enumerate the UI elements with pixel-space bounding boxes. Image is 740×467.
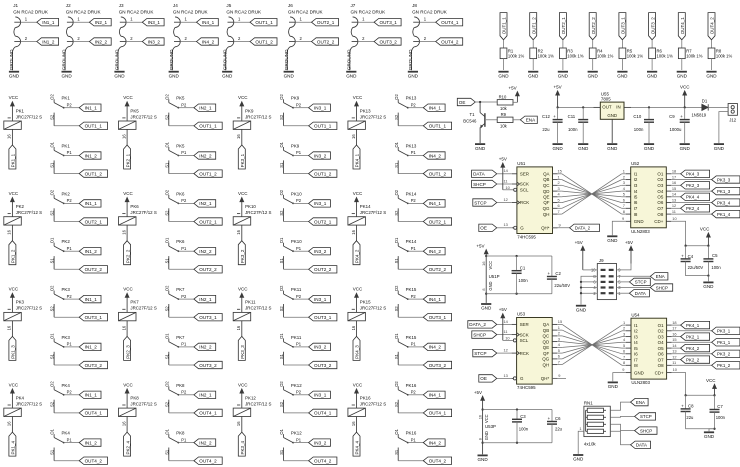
- svg-text:OUT4_1: OUT4_1: [429, 411, 447, 416]
- svg-text:22u: 22u: [686, 415, 694, 420]
- svg-text:SHCP: SHCP: [656, 285, 668, 290]
- svg-text:100n: 100n: [634, 127, 644, 132]
- svg-text:GN RCA2 DRUK: GN RCA2 DRUK: [66, 9, 102, 14]
- svg-text:U53P: U53P: [485, 424, 496, 429]
- svg-text:15: 15: [672, 186, 676, 191]
- svg-text:OUT1_1: OUT1_1: [314, 124, 332, 129]
- svg-text:100n: 100n: [518, 278, 528, 283]
- svg-text:16: 16: [672, 180, 676, 185]
- svg-text:OUT2_1: OUT2_1: [429, 219, 447, 224]
- svg-text:RN1: RN1: [584, 401, 593, 406]
- svg-text:PK14: PK14: [406, 239, 417, 244]
- svg-text:O8: O8: [658, 363, 664, 368]
- svg-text:IN1_2: IN1_2: [42, 39, 55, 44]
- svg-text:OUT1_1: OUT1_1: [502, 17, 507, 35]
- svg-text:C5: C5: [712, 253, 718, 258]
- svg-text:SER: SER: [520, 172, 529, 177]
- svg-text:O1: O1: [50, 141, 55, 147]
- svg-text:P2: P2: [67, 294, 73, 299]
- svg-text:O1: O1: [50, 428, 55, 434]
- svg-text:GND: GND: [644, 146, 655, 151]
- svg-text:O2: O2: [50, 189, 55, 195]
- svg-text:9: 9: [622, 216, 624, 221]
- svg-text:IN3_2: IN3_2: [148, 39, 161, 44]
- svg-text:VCC: VCC: [484, 414, 489, 423]
- svg-text:IN1_2: IN1_2: [85, 249, 98, 254]
- svg-text:GND: GND: [714, 146, 725, 151]
- svg-text:+5V: +5V: [476, 243, 484, 248]
- svg-text:O2: O2: [394, 285, 399, 291]
- svg-text:O2: O2: [657, 177, 663, 182]
- svg-text:I5: I5: [634, 195, 638, 200]
- svg-text:5: 5: [623, 343, 625, 348]
- svg-text:16: 16: [7, 134, 12, 139]
- svg-text:PK1_3: PK1_3: [717, 189, 731, 194]
- svg-text:PK6: PK6: [176, 191, 185, 196]
- svg-text:VCC: VCC: [353, 287, 363, 292]
- svg-text:GND: GND: [647, 73, 658, 78]
- svg-text:PK1_3: PK1_3: [11, 345, 16, 359]
- svg-text:JRC27F/12 S: JRC27F/12 S: [245, 210, 271, 215]
- svg-text:QC: QC: [543, 183, 550, 188]
- svg-text:I3: I3: [634, 334, 638, 339]
- svg-text:8: 8: [478, 438, 483, 440]
- svg-text:VCC: VCC: [706, 378, 716, 383]
- svg-text:+5V: +5V: [474, 390, 482, 395]
- svg-text:J8: J8: [412, 3, 417, 8]
- svg-text:100k 1%: 100k 1%: [508, 54, 525, 59]
- svg-text:PK15: PK15: [406, 287, 417, 292]
- svg-text:100k 1%: 100k 1%: [716, 54, 733, 59]
- svg-text:IN4_1: IN4_1: [429, 297, 442, 302]
- svg-text:16: 16: [478, 415, 483, 419]
- svg-text:U51P: U51P: [489, 274, 500, 279]
- svg-text:O1: O1: [164, 333, 169, 339]
- svg-text:C12: C12: [542, 114, 550, 119]
- svg-text:P1: P1: [181, 437, 187, 442]
- svg-text:7805: 7805: [601, 96, 611, 101]
- svg-text:QB: QB: [543, 328, 549, 333]
- svg-text:IN2_2: IN2_2: [95, 39, 108, 44]
- svg-text:J7: J7: [351, 3, 356, 8]
- svg-text:PK4_2: PK4_2: [686, 346, 700, 351]
- svg-text:R10: R10: [499, 95, 507, 100]
- svg-text:16: 16: [121, 325, 126, 330]
- svg-text:PK4_1: PK4_1: [355, 153, 360, 167]
- svg-text:7: 7: [558, 209, 560, 214]
- svg-text:IN3_1: IN3_1: [314, 201, 327, 206]
- svg-text:OUT1_1: OUT1_1: [255, 20, 273, 25]
- svg-text:PK3_3: PK3_3: [717, 177, 731, 182]
- svg-text:PK13: PK13: [406, 96, 417, 101]
- svg-text:PK2_1: PK2_1: [125, 153, 130, 167]
- svg-text:J5: J5: [226, 3, 231, 8]
- svg-text:P1: P1: [181, 246, 187, 251]
- svg-text:IN4_2: IN4_2: [429, 249, 442, 254]
- svg-text:2: 2: [623, 174, 625, 179]
- svg-text:OUT1_2: OUT1_2: [429, 171, 447, 176]
- svg-text:P1: P1: [411, 246, 417, 251]
- svg-text:1: 1: [623, 320, 625, 325]
- svg-text:GND: GND: [607, 146, 618, 151]
- svg-text:OUT1_2: OUT1_2: [531, 17, 536, 35]
- svg-text:OUT1_1: OUT1_1: [85, 124, 103, 129]
- svg-text:SHCP: SHCP: [473, 182, 486, 187]
- svg-text:JRC27F/12 S: JRC27F/12 S: [130, 306, 156, 311]
- svg-text:I8: I8: [634, 363, 638, 368]
- svg-text:O5: O5: [658, 346, 664, 351]
- svg-text:VCC: VCC: [9, 382, 19, 387]
- svg-text:GND: GND: [222, 73, 233, 78]
- svg-text:DATA: DATA: [636, 443, 647, 448]
- svg-text:J9: J9: [599, 258, 604, 263]
- svg-text:VCC: VCC: [353, 191, 363, 196]
- svg-text:PK2: PK2: [16, 204, 25, 209]
- svg-text:O2: O2: [279, 285, 284, 291]
- svg-text:PK12: PK12: [245, 395, 256, 400]
- svg-text:OUT3_1: OUT3_1: [380, 20, 398, 25]
- svg-text:P1: P1: [296, 150, 302, 155]
- svg-text:J3: J3: [119, 3, 124, 8]
- svg-text:100k 1%: 100k 1%: [686, 54, 703, 59]
- svg-text:JRC27F/12 S: JRC27F/12 S: [16, 210, 42, 215]
- svg-text:IN4_2: IN4_2: [429, 345, 442, 350]
- svg-text:100k 1%: 100k 1%: [567, 54, 584, 59]
- svg-text:GND: GND: [477, 457, 488, 462]
- svg-text:VCC: VCC: [9, 287, 19, 292]
- svg-text:VCC: VCC: [238, 382, 248, 387]
- svg-text:3: 3: [623, 331, 625, 336]
- svg-text:22u/50V: 22u/50V: [688, 265, 704, 270]
- svg-text:OUT1_1: OUT1_1: [199, 124, 217, 129]
- svg-text:OUT2_2: OUT2_2: [85, 267, 103, 272]
- svg-text:ULN2803: ULN2803: [631, 229, 650, 234]
- svg-text:QD: QD: [543, 189, 550, 194]
- svg-text:OUT4_2: OUT4_2: [85, 459, 103, 464]
- svg-text:16: 16: [236, 229, 241, 234]
- svg-text:PK14: PK14: [360, 204, 371, 209]
- svg-text:GND: GND: [677, 73, 688, 78]
- svg-text:GND: GND: [475, 146, 486, 151]
- svg-text:JRC27F/12 S: JRC27F/12 S: [360, 306, 386, 311]
- svg-text:JRC27F/12 S: JRC27F/12 S: [360, 210, 386, 215]
- svg-text:GROUND: GROUND: [115, 49, 120, 70]
- svg-text:PK4_2: PK4_2: [355, 249, 360, 263]
- svg-text:I6: I6: [634, 200, 638, 205]
- svg-text:PK3: PK3: [62, 287, 71, 292]
- svg-text:P2: P2: [411, 294, 417, 299]
- svg-text:13: 13: [672, 349, 676, 354]
- svg-text:STCP: STCP: [474, 200, 486, 205]
- svg-text:O1: O1: [279, 428, 284, 434]
- svg-text:VCC: VCC: [9, 95, 19, 100]
- svg-text:GROUND: GROUND: [62, 49, 67, 70]
- svg-text:STCP: STCP: [474, 351, 486, 356]
- svg-text:QB: QB: [543, 177, 549, 182]
- svg-text:100k 1%: 100k 1%: [538, 54, 555, 59]
- svg-text:PK9: PK9: [291, 96, 300, 101]
- svg-text:PK10: PK10: [291, 239, 302, 244]
- svg-text:G: G: [520, 226, 524, 231]
- svg-text:U52: U52: [631, 161, 640, 166]
- svg-text:GND: GND: [578, 146, 589, 151]
- svg-text:16: 16: [121, 421, 126, 426]
- svg-text:C7: C7: [717, 404, 723, 409]
- svg-text:16: 16: [7, 325, 12, 330]
- svg-text:O5: O5: [657, 195, 663, 200]
- svg-text:OE: OE: [459, 100, 466, 105]
- svg-text:DATA: DATA: [635, 291, 646, 296]
- svg-text:JRC27F/12 S: JRC27F/12 S: [245, 306, 271, 311]
- svg-text:PK2: PK2: [62, 191, 71, 196]
- svg-text:74HC595: 74HC595: [517, 385, 536, 390]
- svg-text:12: 12: [672, 354, 676, 359]
- svg-text:GN RCA2 DRUK: GN RCA2 DRUK: [226, 9, 262, 14]
- svg-text:IN4_1: IN4_1: [429, 106, 442, 111]
- svg-text:O1: O1: [279, 237, 284, 243]
- svg-text:I2: I2: [634, 177, 638, 182]
- svg-text:VCC: VCC: [353, 95, 363, 100]
- svg-text:OUT2_2: OUT2_2: [314, 267, 332, 272]
- svg-text:P2: P2: [296, 102, 302, 107]
- svg-text:C9: C9: [669, 114, 675, 119]
- svg-text:PK4_3: PK4_3: [686, 172, 700, 177]
- svg-text:1: 1: [558, 325, 560, 330]
- svg-text:QF: QF: [543, 200, 549, 205]
- svg-text:GROUND: GROUND: [346, 49, 351, 70]
- svg-text:IN3_1: IN3_1: [314, 106, 327, 111]
- svg-text:U51: U51: [517, 161, 526, 166]
- svg-text:IN2_1: IN2_1: [199, 297, 212, 302]
- svg-text:VCC: VCC: [123, 95, 133, 100]
- svg-text:OUT2_1: OUT2_1: [317, 20, 335, 25]
- svg-text:PK16: PK16: [360, 395, 371, 400]
- svg-text:2: 2: [558, 180, 560, 185]
- svg-text:PK7: PK7: [176, 287, 185, 292]
- svg-text:OUT2_2: OUT2_2: [317, 39, 335, 44]
- svg-text:VCC: VCC: [123, 191, 133, 196]
- svg-text:GND: GND: [488, 281, 493, 290]
- svg-text:16: 16: [351, 421, 356, 426]
- svg-text:PK3_1: PK3_1: [240, 153, 245, 167]
- svg-text:I3: I3: [634, 183, 638, 188]
- svg-text:O4: O4: [657, 189, 663, 194]
- svg-text:PK3_2: PK3_2: [240, 249, 245, 263]
- svg-text:9: 9: [559, 222, 561, 227]
- svg-text:J4: J4: [173, 3, 178, 8]
- svg-text:GND: GND: [607, 238, 618, 243]
- svg-text:O1: O1: [394, 333, 399, 339]
- svg-text:D1: D1: [702, 98, 708, 103]
- svg-text:100k 1%: 100k 1%: [627, 54, 644, 59]
- svg-text:P2: P2: [411, 390, 417, 395]
- svg-text:P2: P2: [411, 102, 417, 107]
- svg-text:IN1_1: IN1_1: [85, 393, 98, 398]
- svg-text:GND: GND: [61, 73, 72, 78]
- svg-text:22u: 22u: [542, 127, 550, 132]
- svg-text:PK14: PK14: [406, 191, 417, 196]
- svg-text:QE: QE: [543, 345, 549, 350]
- svg-text:JRC27F/12 S: JRC27F/12 S: [245, 401, 271, 406]
- svg-text:SHCP: SHCP: [640, 428, 652, 433]
- svg-text:OUT3_1: OUT3_1: [85, 315, 103, 320]
- svg-text:ENA: ENA: [656, 274, 665, 279]
- svg-text:O7: O7: [658, 357, 664, 362]
- svg-text:P1: P1: [411, 437, 417, 442]
- svg-text:+5V: +5V: [625, 240, 633, 245]
- svg-text:2: 2: [623, 326, 625, 331]
- svg-text:VCC: VCC: [700, 227, 710, 232]
- svg-text:OE: OE: [480, 226, 487, 231]
- svg-text:PK8: PK8: [176, 383, 185, 388]
- svg-text:J12: J12: [729, 118, 737, 123]
- svg-text:GND: GND: [169, 73, 180, 78]
- svg-text:12: 12: [672, 203, 676, 208]
- svg-text:PK8: PK8: [130, 395, 139, 400]
- svg-text:PK3_4: PK3_4: [240, 440, 245, 454]
- svg-text:VCC: VCC: [488, 261, 493, 270]
- svg-text:P1: P1: [67, 437, 73, 442]
- svg-text:O3: O3: [658, 334, 664, 339]
- svg-text:7: 7: [623, 203, 625, 208]
- svg-text:12: 12: [504, 197, 508, 202]
- svg-text:I1: I1: [634, 172, 638, 177]
- svg-text:6: 6: [623, 197, 625, 202]
- svg-text:IN1_1: IN1_1: [85, 201, 98, 206]
- svg-text:18: 18: [672, 169, 676, 174]
- svg-text:3: 3: [558, 336, 560, 341]
- svg-text:100n: 100n: [711, 265, 721, 270]
- svg-text:16: 16: [7, 229, 12, 234]
- svg-text:IN: IN: [616, 105, 620, 110]
- svg-text:OUT1_2: OUT1_2: [85, 171, 103, 176]
- svg-text:GND: GND: [284, 73, 295, 78]
- svg-text:+5V: +5V: [554, 85, 562, 90]
- svg-text:P2: P2: [181, 390, 187, 395]
- svg-text:OUT3_2: OUT3_2: [429, 363, 447, 368]
- svg-text:O2: O2: [658, 329, 664, 334]
- svg-text:QH*: QH*: [541, 226, 550, 231]
- svg-text:O2: O2: [50, 381, 55, 387]
- svg-text:I4: I4: [634, 340, 638, 345]
- svg-text:SCK: SCK: [520, 182, 529, 187]
- svg-text:IN4_1: IN4_1: [202, 20, 215, 25]
- svg-text:O3: O3: [657, 183, 663, 188]
- svg-text:C11: C11: [568, 114, 576, 119]
- svg-text:U54: U54: [631, 312, 640, 317]
- svg-text:GROUND: GROUND: [284, 49, 289, 70]
- svg-text:OUT4_2: OUT4_2: [199, 459, 217, 464]
- svg-text:P1: P1: [296, 342, 302, 347]
- svg-text:IN3_1: IN3_1: [314, 297, 327, 302]
- svg-text:15: 15: [558, 319, 562, 324]
- svg-text:GND: GND: [408, 73, 419, 78]
- svg-text:C2: C2: [555, 271, 561, 276]
- svg-text:O1: O1: [658, 323, 664, 328]
- svg-text:P2: P2: [181, 102, 187, 107]
- svg-text:O2: O2: [394, 189, 399, 195]
- svg-text:PK7: PK7: [176, 335, 185, 340]
- svg-text:O2: O2: [394, 381, 399, 387]
- svg-text:O1: O1: [394, 428, 399, 434]
- svg-text:O1: O1: [657, 172, 663, 177]
- svg-text:+5V: +5V: [575, 240, 583, 245]
- svg-text:7: 7: [623, 354, 625, 359]
- svg-text:J1: J1: [13, 3, 18, 8]
- svg-text:O2: O2: [279, 94, 284, 100]
- svg-text:11: 11: [672, 209, 676, 214]
- svg-text:JRC27F/12 S: JRC27F/12 S: [360, 401, 386, 406]
- svg-text:GND: GND: [114, 73, 125, 78]
- svg-text:PK1: PK1: [16, 108, 25, 113]
- svg-text:T1: T1: [469, 112, 475, 117]
- svg-text:PK4: PK4: [62, 431, 71, 436]
- svg-text:O2: O2: [50, 285, 55, 291]
- svg-text:C6: C6: [555, 416, 561, 421]
- svg-text:100k 1%: 100k 1%: [657, 54, 674, 59]
- svg-text:4x10k: 4x10k: [584, 441, 597, 446]
- svg-text:PK2: PK2: [62, 239, 71, 244]
- svg-text:I5: I5: [634, 346, 638, 351]
- svg-text:JRC27F/12 S: JRC27F/12 S: [245, 114, 271, 119]
- svg-text:GROUND: GROUND: [222, 49, 227, 70]
- svg-text:OUT1_1: OUT1_1: [429, 124, 447, 129]
- svg-text:QH: QH: [543, 212, 550, 217]
- svg-text:PK4_3: PK4_3: [355, 345, 360, 359]
- svg-text:O2: O2: [279, 381, 284, 387]
- svg-text:OUT2_2: OUT2_2: [591, 17, 596, 35]
- svg-text:OUT3_1: OUT3_1: [621, 17, 626, 35]
- svg-text:17: 17: [672, 174, 676, 179]
- svg-text:O2: O2: [164, 189, 169, 195]
- svg-text:O2: O2: [164, 381, 169, 387]
- svg-text:G: G: [520, 376, 524, 381]
- svg-text:JRC27F/12 S: JRC27F/12 S: [16, 114, 42, 119]
- svg-text:IN1_2: IN1_2: [85, 345, 98, 350]
- svg-text:10k: 10k: [500, 123, 508, 128]
- svg-text:GROUND: GROUND: [169, 49, 174, 70]
- svg-text:GND: GND: [498, 73, 509, 78]
- svg-text:PK3_4: PK3_4: [717, 200, 731, 205]
- svg-text:11: 11: [504, 178, 508, 183]
- svg-text:GND: GND: [607, 113, 617, 118]
- svg-text:GN RCA2 DRUK: GN RCA2 DRUK: [412, 9, 448, 14]
- svg-text:11: 11: [672, 360, 676, 365]
- svg-text:P2: P2: [181, 294, 187, 299]
- svg-text:CD+: CD+: [655, 370, 664, 375]
- svg-text:GND: GND: [481, 306, 492, 311]
- svg-text:QH: QH: [543, 362, 550, 367]
- svg-text:RCK: RCK: [520, 351, 529, 356]
- svg-text:C1: C1: [520, 265, 526, 270]
- svg-text:I6: I6: [634, 352, 638, 357]
- svg-text:8: 8: [623, 360, 625, 365]
- svg-text:IN1_2: IN1_2: [85, 153, 98, 158]
- svg-text:P1: P1: [411, 150, 417, 155]
- svg-text:GND: GND: [680, 146, 691, 151]
- svg-text:PK11: PK11: [291, 335, 302, 340]
- svg-text:OUT1_2: OUT1_2: [199, 171, 217, 176]
- svg-text:22u/50V: 22u/50V: [554, 283, 570, 288]
- svg-text:PK3: PK3: [16, 300, 25, 305]
- svg-text:3: 3: [623, 180, 625, 185]
- svg-text:9: 9: [558, 373, 560, 378]
- svg-text:PK1_4: PK1_4: [11, 440, 16, 454]
- svg-text:OUT3_2: OUT3_2: [650, 17, 655, 35]
- svg-text:PK5: PK5: [130, 108, 139, 113]
- svg-text:PK1: PK1: [62, 96, 71, 101]
- svg-text:PK2_4: PK2_4: [686, 206, 700, 211]
